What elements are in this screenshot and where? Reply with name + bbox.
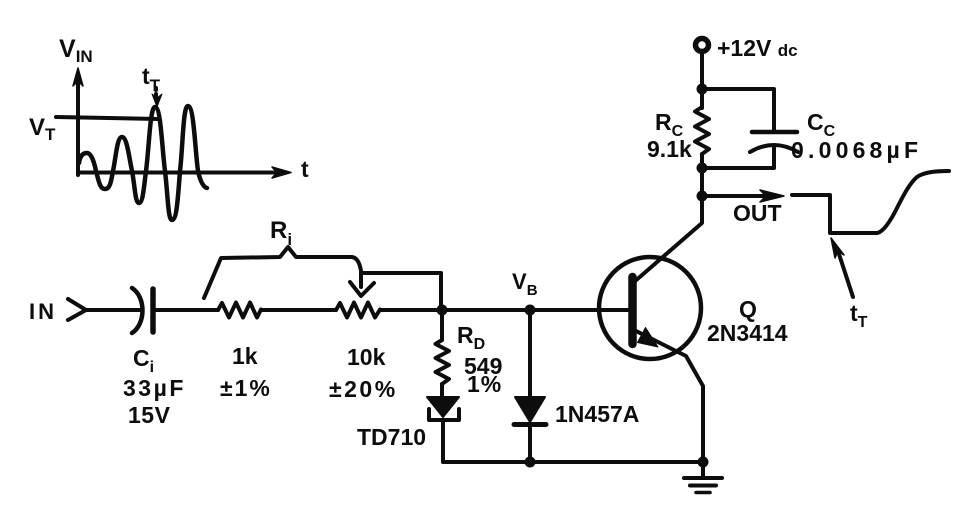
svg-text:±20%: ±20% bbox=[329, 376, 398, 402]
tunnel diode TD710 triangle bbox=[427, 397, 459, 417]
svg-text:9.1k: 9.1k bbox=[647, 136, 692, 162]
waveform inset: V_T threshold line bbox=[56, 117, 158, 119]
svg-text:+12V dc: +12V dc bbox=[717, 35, 798, 61]
potentiometer wiper arrow bbox=[350, 272, 374, 296]
wire: R_D to TD710 bbox=[440, 384, 444, 397]
ground symbol bbox=[684, 462, 722, 493]
capacitor C_i curved plate bbox=[132, 288, 143, 333]
wire: R_C bottom node to OUT node bbox=[700, 168, 704, 196]
waveform inset: growing sine wave bbox=[79, 106, 207, 220]
wire: IN to C_i bbox=[86, 308, 141, 312]
wire: supply to R_C top node bbox=[700, 51, 704, 89]
svg-text:RD: RD bbox=[457, 322, 485, 353]
transistor Q1 emitter arrowhead bbox=[638, 328, 659, 348]
svg-text:TD710: TD710 bbox=[357, 424, 426, 450]
resistor R_C zigzag bbox=[695, 107, 709, 154]
wire: wiper to right terminal (L shape) bbox=[361, 273, 441, 310]
resistor R_C wire top stub bbox=[700, 89, 704, 108]
R_C top junction dot bbox=[697, 84, 708, 95]
wire: node A down to R_D bbox=[440, 310, 444, 340]
svg-text:10k: 10k bbox=[347, 344, 386, 370]
wire: 10k to node A bbox=[380, 308, 442, 312]
transistor Q1 emitter lead bbox=[634, 330, 703, 462]
svg-text:Ri: Ri bbox=[270, 217, 292, 249]
svg-text:2N3414: 2N3414 bbox=[707, 320, 788, 346]
wire: bottom rail to ground bbox=[530, 460, 703, 464]
svg-text:1%: 1% bbox=[467, 371, 502, 397]
svg-text:tT: tT bbox=[850, 300, 868, 331]
svg-text:1N457A: 1N457A bbox=[555, 401, 639, 427]
R_C bottom junction dot bbox=[697, 163, 708, 174]
diode 1N457A triangle bbox=[515, 397, 545, 422]
transistor Q1 circle bbox=[599, 257, 701, 359]
OUT arrowhead bbox=[760, 190, 784, 202]
wire: C_C bottom to R_C bottom node bbox=[702, 148, 774, 168]
IN input arrow chevron bbox=[68, 299, 86, 320]
waveform inset: t horizontal axis bbox=[78, 167, 291, 178]
t_T pointer arrow to waveform corner bbox=[831, 238, 853, 297]
svg-text:33µF: 33µF bbox=[123, 375, 186, 401]
svg-text:IN: IN bbox=[29, 299, 57, 324]
OUT node junction dot bbox=[697, 191, 708, 202]
svg-text:OUT: OUT bbox=[733, 200, 782, 226]
transistor Q1 collector lead bbox=[634, 196, 702, 282]
waveform inset: t_T dotted pointer bbox=[152, 88, 162, 107]
wire: 1N457A to bottom rail bbox=[528, 424, 532, 462]
waveform inset: V_IN vertical axis bbox=[73, 68, 83, 175]
bottom rail junction dot at 1N457A bbox=[525, 457, 536, 468]
wire: 1k to 10k pot bbox=[261, 308, 336, 312]
ground junction dot bbox=[698, 457, 709, 468]
svg-text:±1%: ±1% bbox=[220, 375, 272, 401]
wire: TD710 to bottom rail bbox=[443, 420, 530, 462]
wire: V_B to transistor base bbox=[530, 308, 629, 312]
wire: top node to C_C branch bbox=[702, 89, 774, 130]
svg-text:Ci: Ci bbox=[133, 345, 154, 376]
capacitor C_i straight plate bbox=[150, 289, 156, 332]
output waveform step and rise curve bbox=[792, 171, 949, 233]
svg-text:0.0068µF: 0.0068µF bbox=[791, 137, 922, 163]
capacitor C_C top plate bbox=[752, 130, 797, 135]
transistor Q1 base bar bbox=[628, 277, 637, 344]
tunnel diode TD710 cathode cup bbox=[429, 409, 459, 420]
node A junction dot bbox=[437, 305, 448, 316]
wire: R_C zigzag to bottom node bbox=[700, 154, 704, 168]
svg-text:VB: VB bbox=[512, 269, 538, 299]
resistor 1k zigzag bbox=[218, 303, 261, 318]
svg-text:Q: Q bbox=[739, 296, 757, 322]
wire: C_i to R 1k bbox=[155, 308, 218, 312]
+12V supply terminal circle bbox=[696, 39, 709, 52]
svg-text:CC: CC bbox=[807, 109, 836, 140]
svg-text:t: t bbox=[301, 156, 309, 182]
svg-text:15V: 15V bbox=[128, 402, 171, 428]
diode 1N457A cathode bar bbox=[514, 422, 546, 427]
capacitor C_C curved bottom plate bbox=[750, 145, 798, 152]
svg-text:1k: 1k bbox=[232, 343, 258, 369]
R_i brace over 1k and 10k bbox=[204, 247, 361, 298]
wire: OUT node to arrow bbox=[702, 194, 763, 198]
wire: node A to V_B node bbox=[442, 308, 530, 312]
svg-text:VIN: VIN bbox=[59, 35, 93, 66]
node V_B junction dot bbox=[525, 305, 536, 316]
wire: V_B down to diode 1N457A bbox=[528, 310, 532, 398]
resistor R_D zigzag bbox=[436, 340, 450, 384]
potentiometer 10k zigzag bbox=[336, 303, 380, 318]
svg-text:VT: VT bbox=[29, 114, 56, 144]
